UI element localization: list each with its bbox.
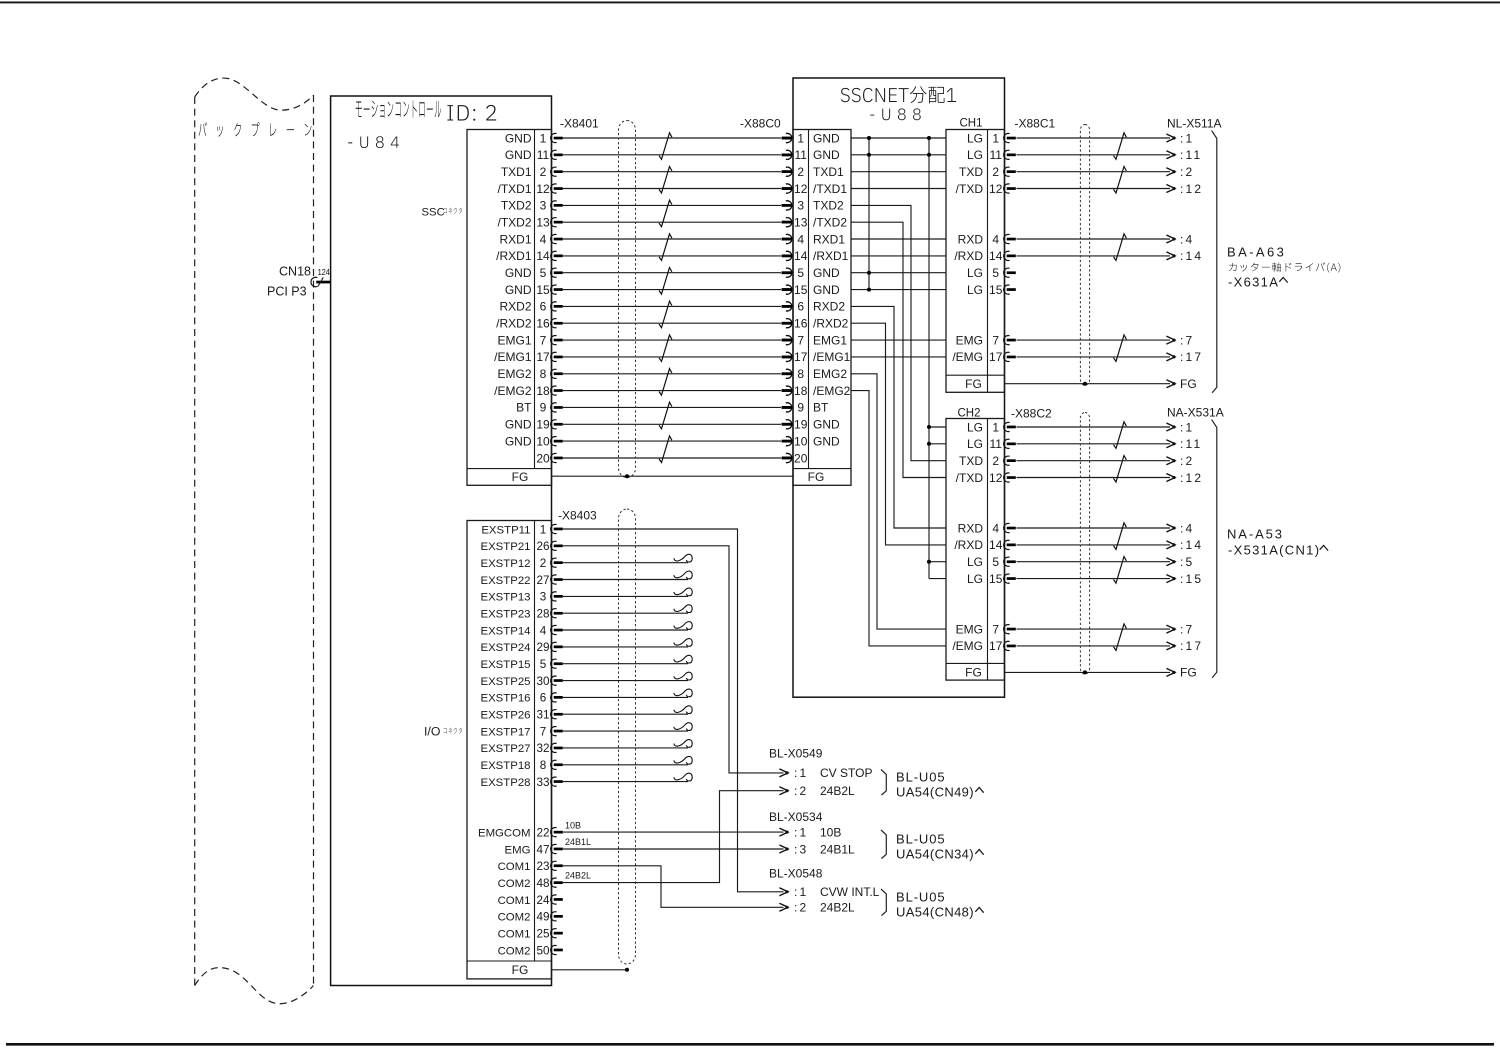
svg-text:/RXD: /RXD (954, 249, 983, 263)
svg-text::17: :17 (1180, 639, 1203, 653)
wire X8401 conductor pin 17 (/EMG1) (563, 352, 792, 361)
U84 I/O connector pin 48 COM2 (498, 877, 563, 890)
svg-text:TXD1: TXD1 (813, 165, 844, 179)
label I/O connector (I/Oコネクタ) (424, 725, 462, 739)
svg-text:9: 9 (540, 401, 547, 415)
wire FG U84 to X88C0 (552, 475, 794, 477)
svg-text:5: 5 (797, 266, 804, 280)
svg-text:5: 5 (540, 266, 547, 280)
svg-text:24B2L: 24B2L (565, 871, 591, 881)
svg-text:10B: 10B (565, 820, 581, 830)
svg-text:23: 23 (536, 860, 549, 873)
svg-text:BA-A63: BA-A63 (1227, 245, 1286, 260)
svg-text:3: 3 (797, 199, 804, 213)
group bracket NA-X531A (1212, 420, 1217, 678)
X88C0 pin 3 TXD2 (782, 199, 844, 213)
wire X8401 conductor pin 1 (GND) (563, 133, 792, 142)
wire EXSTP11 pin1 to BL-X0548 :1 (563, 529, 784, 892)
svg-text:6: 6 (540, 300, 547, 314)
U88 refdes -U88 (870, 108, 921, 120)
U88 internal wire bus2 to CH2 LG5 (929, 561, 946, 563)
svg-text:11: 11 (794, 148, 807, 162)
svg-text:/RXD: /RXD (954, 538, 983, 552)
svg-text:EXSTP12: EXSTP12 (480, 558, 530, 570)
wire X8403 EXSTP26 pin 31 (unterminated) (563, 706, 692, 714)
svg-text:17: 17 (989, 639, 1003, 653)
svg-text:TXD1: TXD1 (501, 165, 532, 179)
svg-text:10: 10 (536, 434, 550, 448)
wire X88C2 conductor :4 (1017, 524, 1176, 532)
twisted pair mark X8401 pins 6/16 (659, 301, 672, 328)
svg-text:18: 18 (536, 384, 550, 398)
U84 I/O connector box (467, 521, 552, 979)
twisted pair mark X8401 pins 10/20 (659, 436, 672, 463)
X88C0 pin 12 /TXD1 (782, 182, 848, 196)
svg-text:NA-A53: NA-A53 (1227, 527, 1284, 542)
wire X88C2 conductor :2 (1017, 457, 1176, 465)
svg-text:3: 3 (540, 591, 547, 604)
svg-text:EXSTP24: EXSTP24 (480, 642, 530, 654)
wire X8401 conductor pin 4 (RXD1) (563, 234, 792, 243)
U84 SSC connector pin 2 TXD1 (501, 165, 563, 179)
arrow BL-X0534 :3 (779, 845, 788, 853)
svg-text:EMG1: EMG1 (813, 333, 847, 347)
group brace BL-X0534 (881, 830, 886, 859)
svg-text:-X8403: -X8403 (558, 509, 597, 523)
U84 I/O connector pin 26 EXSTP21 (480, 540, 562, 553)
U88 internal wire TXD2 to CH2 (851, 205, 946, 460)
svg-text:BT: BT (813, 401, 829, 415)
svg-text:LG: LG (967, 572, 983, 586)
svg-text:49: 49 (536, 911, 549, 924)
svg-text:31: 31 (536, 709, 549, 722)
svg-text:GND: GND (505, 434, 532, 448)
svg-text:/EMG: /EMG (952, 639, 983, 653)
U84 SSC connector pin 20 (nc) (536, 451, 562, 465)
pin label :3 24B1L (794, 842, 855, 856)
svg-text:47: 47 (536, 843, 549, 856)
svg-text:/TXD2: /TXD2 (813, 216, 847, 230)
U84 SSC connector pin 9 BT (516, 401, 563, 415)
wire X8401 conductor pin 11 (GND) (563, 150, 792, 159)
svg-text:-X631A: -X631A (1228, 275, 1279, 290)
svg-text::2: :2 (1180, 165, 1194, 179)
CH2 pin 15 LG (967, 572, 1016, 586)
svg-text:BL-U05: BL-U05 (896, 832, 945, 847)
svg-text:-X88C2: -X88C2 (1011, 407, 1052, 421)
U84 I/O connector pin 28 EXSTP23 (480, 608, 562, 621)
svg-text:GND: GND (813, 418, 840, 432)
wire X8401 conductor pin 13 (/TXD2) (563, 218, 792, 227)
svg-text::1: :1 (1180, 131, 1194, 145)
svg-text:24: 24 (536, 894, 550, 907)
wire EXSTP21 pin26 to BL-X0549 :1 (563, 546, 784, 773)
CH2 pin 11 LG (967, 437, 1016, 451)
U88 internal LG bus 2 (928, 138, 930, 579)
U88 internal wire GND15 to CH1 (851, 289, 946, 291)
wire X88C2 conductor :5 (1017, 558, 1176, 566)
wire X88C1 conductor :4 (1017, 235, 1176, 243)
twisted pair mark X8401 pins 4/14 (659, 234, 672, 261)
U84 I/O connector pin 7 EXSTP17 (480, 725, 562, 738)
svg-text:GND: GND (505, 283, 532, 297)
wire X8401 conductor pin 10 (GND) (563, 437, 792, 446)
svg-text:BL-X0549: BL-X0549 (769, 747, 823, 761)
CH2 connector X88C2 box (946, 419, 1005, 681)
top frame border line (0, 1, 1500, 3)
CH1 pin 14 /RXD (954, 249, 1015, 263)
svg-text:3: 3 (540, 199, 547, 213)
wire X88C1 conductor :12 (1017, 185, 1176, 193)
svg-text:EXSTP14: EXSTP14 (480, 625, 530, 637)
svg-text::12: :12 (1180, 471, 1203, 485)
junction dot X8403 shield to FG (625, 968, 629, 972)
svg-text:RXD1: RXD1 (813, 232, 845, 246)
wire X8401 conductor pin 19 (GND) (563, 420, 792, 429)
U84 SSC connector pin 6 RXD2 (499, 300, 562, 314)
svg-text:FG: FG (1180, 377, 1197, 391)
wire X8401 conductor pin 15 (GND) (563, 285, 792, 294)
svg-text:EXSTP17: EXSTP17 (480, 726, 530, 738)
svg-text:8: 8 (540, 759, 547, 772)
U88 internal wire /RXD1 to CH1 (851, 255, 946, 257)
U84 I/O connector pin 33 EXSTP28 (480, 776, 562, 789)
svg-text:5: 5 (540, 658, 547, 671)
svg-text:7: 7 (992, 333, 999, 347)
svg-text:RXD: RXD (958, 232, 984, 246)
svg-text:15: 15 (536, 283, 550, 297)
svg-text:4: 4 (992, 521, 999, 535)
svg-text:RXD2: RXD2 (499, 300, 531, 314)
wire X8401 conductor pin 5 (GND) (563, 268, 792, 277)
U84 SSC connector pin 5 GND (505, 266, 563, 280)
wire X8401 conductor pin 16 (/RXD2) (563, 319, 792, 328)
wire X88C2 conductor :11 (1017, 440, 1176, 448)
svg-text:2: 2 (992, 165, 999, 179)
svg-text:RXD1: RXD1 (499, 232, 531, 246)
svg-text:19: 19 (536, 418, 550, 432)
wire FG CH1 to NL-X511A (1005, 380, 1176, 388)
CH1 pin 12 /TXD (956, 182, 1016, 196)
svg-text:COM2: COM2 (498, 878, 531, 890)
svg-text::7: :7 (1180, 333, 1194, 347)
svg-text:SSC: SSC (422, 207, 445, 219)
wire X88C2 conductor :12 (1017, 474, 1176, 482)
svg-text:EMG1: EMG1 (497, 333, 531, 347)
svg-text:16: 16 (536, 317, 550, 331)
svg-text:15: 15 (794, 283, 808, 297)
U84 SSC connector pin 15 GND (505, 283, 563, 297)
wire X88C1 conductor :7 (1017, 336, 1176, 344)
svg-text:20: 20 (794, 451, 808, 465)
X88C0 pin 20 (nc) (782, 451, 808, 465)
wire COM2 pin48 to BL-X0549 :2 (24B2L) (563, 791, 784, 883)
wire EMG pin47 to BL-X0534 :3 (24B1L) (563, 848, 784, 850)
svg-text:4: 4 (540, 624, 547, 637)
svg-text:GND: GND (813, 283, 840, 297)
destination note -X631Aへ (1228, 275, 1288, 290)
wire X8401 conductor pin 2 (TXD1) (563, 167, 792, 176)
wire FG X8403 to shield (552, 969, 628, 971)
svg-text:BL-U05: BL-U05 (896, 770, 945, 785)
group brace BL-X0548 (881, 889, 886, 916)
cable X88C2 shield (dashed oval) (1080, 413, 1089, 674)
destination note -X531A(CN1)へ (1228, 543, 1328, 558)
svg-text:1: 1 (992, 131, 999, 145)
svg-text:1: 1 (797, 131, 804, 145)
CH2 pin 4 RXD (958, 521, 1016, 535)
svg-text:5: 5 (992, 266, 999, 280)
U84 SSC connector pin 3 TXD2 (501, 199, 563, 213)
twisted pair mark X88C2 rows 0/1 (1114, 422, 1127, 449)
wire X8401 conductor pin 20 (pin20) (563, 453, 792, 462)
wire X8403 EXSTP22 pin 27 (unterminated) (563, 571, 692, 579)
svg-text:LG: LG (967, 555, 983, 569)
svg-text::11: :11 (1180, 148, 1202, 162)
destination note BL-U05 UA54(CN34)へ (896, 832, 984, 862)
U84 I/O connector pin 4 EXSTP14 (480, 624, 562, 637)
X88C0 pin 5 GND (782, 266, 840, 280)
U84 SSC connector pin 19 GND (505, 418, 563, 432)
junction dot bus2 CH2 LG1 (927, 425, 931, 429)
X88C0 pin 18 /EMG2 (782, 384, 851, 398)
wire X8403 EXSTP28 pin 33 (unterminated) (563, 773, 692, 781)
X88C0 pin 4 RXD1 (782, 232, 846, 246)
svg-text::2: :2 (1180, 454, 1194, 468)
svg-text:6: 6 (797, 300, 804, 314)
U84 I/O connector pin 24 COM1 (498, 894, 563, 907)
junction dot X88C1 shield to FG (1083, 382, 1087, 386)
svg-text::1: :1 (794, 825, 808, 839)
wire X88C1 conductor :17 (1017, 353, 1176, 361)
svg-text:5: 5 (992, 555, 999, 569)
CH1 pin 5 LG (967, 266, 1016, 280)
svg-text:26: 26 (536, 540, 549, 553)
U88 internal wire GND5 to CH1 (851, 272, 946, 274)
svg-text:-X88C1: -X88C1 (1015, 117, 1056, 131)
svg-text:GND: GND (813, 434, 840, 448)
svg-text:COM1: COM1 (498, 895, 531, 907)
svg-text:/RXD1: /RXD1 (813, 249, 849, 263)
twisted pair mark X8401 pins 3/13 (659, 200, 672, 227)
X88C0 pin 14 /RXD1 (782, 249, 849, 263)
CH2 pin 5 LG (967, 555, 1016, 569)
U84 I/O connector pin 29 EXSTP24 (480, 641, 562, 654)
CH1 pin 1 LG (967, 131, 1016, 145)
U84 SSC connector pin 1 GND (505, 131, 563, 145)
svg-text:17: 17 (536, 350, 550, 364)
svg-text::12: :12 (1180, 182, 1203, 196)
cable X8401 shield (dashed oval) (619, 121, 636, 478)
arrow BL-X0534 :1 (779, 828, 788, 836)
svg-text:7: 7 (540, 333, 547, 347)
svg-text:48: 48 (536, 877, 549, 890)
wire X8403 EXSTP23 pin 28 (unterminated) (563, 605, 692, 613)
svg-text:/TXD: /TXD (956, 471, 984, 485)
junction dot bus2 CH2 LG5 (927, 560, 931, 564)
svg-text:-X88C0: -X88C0 (740, 117, 781, 131)
svg-text:EXSTP23: EXSTP23 (480, 609, 530, 621)
svg-text:-X531A(CN1): -X531A(CN1) (1228, 543, 1320, 558)
svg-text:TXD2: TXD2 (813, 199, 844, 213)
svg-text:14: 14 (989, 249, 1003, 263)
wire X8401 conductor pin 7 (EMG1) (563, 336, 792, 345)
svg-text:LG: LG (967, 131, 983, 145)
U84 SSC connector box (467, 130, 552, 486)
svg-text:FG: FG (808, 470, 825, 484)
U84 I/O connector pin 2 EXSTP12 (480, 557, 562, 570)
junction dot X8401 shield to FG (625, 474, 629, 478)
twisted pair mark X88C1 pins 12/13 (1114, 335, 1127, 362)
U88 internal wire /RXD2 to CH2 (851, 323, 946, 545)
U88 internal GND bus 1 (868, 138, 870, 290)
svg-text:LG: LG (967, 437, 983, 451)
svg-text:/TXD1: /TXD1 (813, 182, 847, 196)
svg-text:EMG: EMG (956, 622, 983, 636)
svg-text:2: 2 (797, 165, 804, 179)
svg-text:9: 9 (797, 401, 804, 415)
U88 internal wire GND11 to CH1 (851, 154, 946, 156)
svg-text:FG: FG (512, 470, 529, 484)
svg-text:12: 12 (794, 182, 808, 196)
svg-text:15: 15 (989, 283, 1003, 297)
svg-text::1: :1 (1180, 420, 1194, 434)
svg-text:25: 25 (536, 928, 550, 941)
svg-text:1: 1 (540, 523, 547, 536)
U88 internal wire RXD1 to CH1 (851, 238, 946, 240)
svg-text:RXD2: RXD2 (813, 300, 845, 314)
U88 title SSCNET分配1 (841, 86, 956, 103)
svg-text:11: 11 (989, 148, 1002, 162)
SSCNET distributor U88 box (793, 78, 1005, 697)
backplane label バックプレーン (199, 122, 312, 137)
svg-text:17: 17 (794, 350, 808, 364)
svg-text:24B1L: 24B1L (820, 842, 855, 856)
U88 internal wire EMG1 to CH1 (851, 339, 946, 341)
bottom frame border line (6, 1043, 1494, 1046)
svg-text:FG: FG (512, 963, 529, 977)
wire EMGCOM pin22 to BL-X0534 :1 (10B) (563, 831, 784, 833)
X88C0 pin 15 GND (782, 283, 840, 297)
wire X8403 EXSTP17 pin 7 (unterminated) (563, 723, 692, 731)
svg-text::4: :4 (1180, 521, 1194, 535)
svg-text:30: 30 (536, 675, 550, 688)
U88 internal wire /EMG1 to CH1 (851, 356, 946, 358)
wire COM1 pin23 to BL-X0548 :2 (563, 866, 784, 908)
junction dots LG bus 2 (top) (927, 136, 931, 157)
wire X8401 conductor pin 6 (RXD2) (563, 302, 792, 311)
destination note カッター軸ドライバ(A) (1229, 262, 1340, 272)
svg-text:CVW INT.L: CVW INT.L (820, 885, 880, 899)
wire X88C1 conductor :11 (1017, 151, 1176, 159)
svg-text:32: 32 (536, 742, 549, 755)
U84 I/O connector pin 30 EXSTP25 (480, 675, 562, 688)
svg-text:FG: FG (965, 666, 982, 680)
svg-text:GND: GND (505, 131, 532, 145)
wire X8401 conductor pin 9 (BT) (563, 403, 792, 412)
U84 SSC connector pin 12 /TXD1 (497, 182, 562, 196)
svg-text:LG: LG (967, 266, 983, 280)
svg-text:EXSTP18: EXSTP18 (480, 760, 530, 772)
svg-text:/EMG1: /EMG1 (494, 350, 532, 364)
U84 I/O connector pin 5 EXSTP15 (480, 658, 562, 671)
svg-text:COM2: COM2 (498, 912, 531, 924)
svg-text:4: 4 (992, 232, 999, 246)
svg-text:7: 7 (797, 333, 804, 347)
U84 I/O connector pin 32 EXSTP27 (480, 742, 562, 755)
wire X8403 EXSTP15 pin 5 (unterminated) (563, 655, 692, 663)
U84 SSC connector pin 4 RXD1 (499, 232, 562, 246)
U84 SSC connector pin 14 /RXD1 (496, 249, 563, 263)
svg-text::3: :3 (794, 842, 808, 856)
group brace BL-X0549 (881, 770, 886, 796)
svg-text:EXSTP22: EXSTP22 (480, 575, 530, 587)
svg-text:I/O: I/O (424, 725, 440, 739)
U84 title ID: 2 (447, 105, 496, 121)
svg-text:28: 28 (536, 608, 549, 621)
svg-text::1: :1 (794, 766, 808, 780)
svg-text:NA-X531A: NA-X531A (1167, 406, 1224, 420)
svg-text:EXSTP13: EXSTP13 (480, 592, 530, 604)
svg-text:GND: GND (505, 266, 532, 280)
wire X88C2 conductor :7 (1017, 625, 1176, 633)
wire X8403 EXSTP14 pin 4 (unterminated) (563, 622, 692, 630)
motion control board U84 box (331, 96, 552, 986)
svg-text:/TXD: /TXD (956, 182, 984, 196)
destination note BL-U05 UA54(CN49)へ (896, 770, 984, 800)
svg-text:14: 14 (794, 249, 808, 263)
CH2 pin 7 EMG (956, 622, 1016, 636)
X88C0 pin 2 TXD1 (782, 165, 844, 179)
svg-text:24B2L: 24B2L (820, 784, 855, 798)
arrow BL-X0549 :1 (779, 769, 788, 777)
wire X8401 conductor pin 8 (EMG2) (563, 369, 792, 378)
svg-text::17: :17 (1180, 350, 1203, 364)
U84 I/O connector pin 8 EXSTP18 (480, 759, 562, 772)
svg-text:16: 16 (794, 317, 808, 331)
U84 I/O connector pin 27 EXSTP22 (480, 574, 562, 587)
svg-text:CN18: CN18 (279, 265, 311, 279)
group bracket NL-X511A (1212, 131, 1217, 393)
junction dot bus2 CH2 LG11 (927, 442, 931, 446)
wire X8403 EXSTP25 pin 30 (unterminated) (563, 672, 692, 680)
svg-text:EXSTP27: EXSTP27 (480, 743, 530, 755)
twisted pair mark X88C2 rows 2/3 (1114, 456, 1127, 483)
X88C0 pin 8 EMG2 (782, 367, 848, 381)
svg-text:EXSTP26: EXSTP26 (480, 710, 530, 722)
svg-text:8: 8 (540, 367, 547, 381)
svg-text:BL-X0548: BL-X0548 (769, 867, 823, 881)
svg-text:COM1: COM1 (498, 929, 531, 941)
twisted pair mark X8401 pins 9/19 (659, 402, 672, 429)
svg-text:17: 17 (989, 350, 1003, 364)
CH1 pin 2 TXD (959, 165, 1016, 179)
wire X88C2 conductor :17 (1017, 642, 1176, 650)
U84 SSC connector pin 10 GND (505, 434, 563, 448)
pin label :1 CVW INT.L (794, 885, 880, 899)
svg-text:GND: GND (813, 266, 840, 280)
U84 SSC connector pin 16 /RXD2 (496, 317, 563, 331)
svg-text::7: :7 (1180, 622, 1194, 636)
CH1 pin 11 LG (967, 148, 1016, 162)
X88C0 pin 19 GND (782, 418, 840, 432)
junction dots GND bus 1 (867, 136, 871, 292)
svg-text:/RXD2: /RXD2 (496, 317, 532, 331)
wire X8403 EXSTP18 pin 8 (unterminated) (563, 756, 692, 764)
U84 I/O connector pin 25 COM1 (498, 928, 563, 941)
U84 title モーションコントロール (356, 101, 441, 118)
svg-text:4: 4 (540, 232, 547, 246)
